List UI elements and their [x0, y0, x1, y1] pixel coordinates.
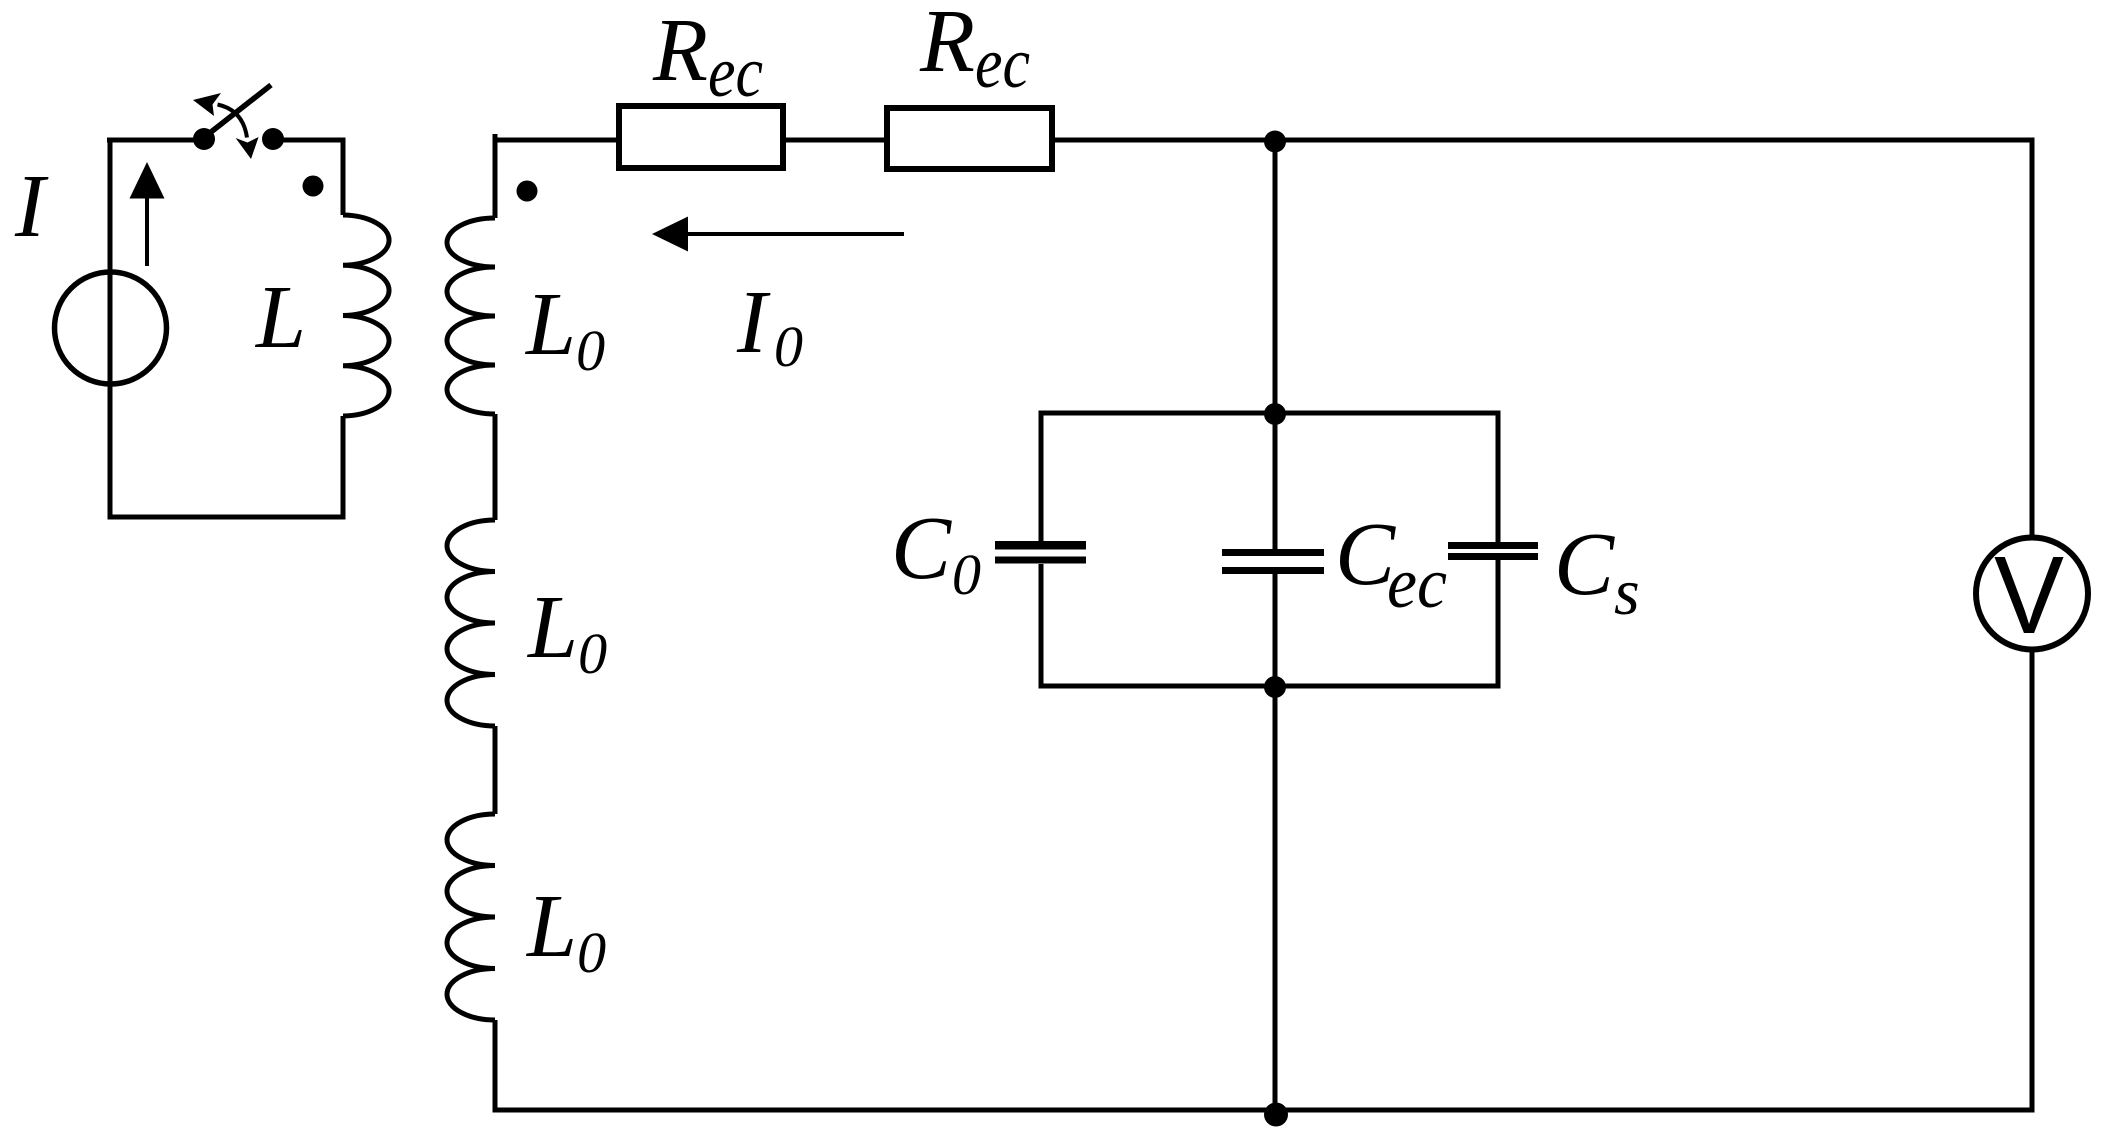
wire: right vertical upper (to voltmeter)	[2030, 138, 2035, 539]
wire: secondary between coil2 and coil3	[493, 726, 498, 814]
svg-text:L: L	[254, 268, 306, 367]
junction node (top wire / middle branch)	[1264, 131, 1286, 153]
wire: primary right vertical upper	[341, 138, 346, 216]
wire: middle vertical lower (cap bank to bottom rail)	[1273, 686, 1278, 1110]
wire: middle vertical upper (top node to cap bank)	[1273, 140, 1278, 413]
inductor L0 (third secondary coil)	[447, 814, 495, 1020]
wire: between resistors	[783, 138, 887, 143]
wire: primary right vertical lower	[341, 416, 346, 520]
wire: secondary top horizontal to R1	[493, 138, 620, 143]
wire: capacitor bank bottom rail	[1039, 684, 1501, 689]
wire: top right long segment	[1052, 138, 2035, 143]
switch motion arrow (curved, two heads)	[193, 93, 259, 159]
svg-text:L0: L0	[525, 877, 606, 985]
current direction arrow (I0, leftward)	[652, 217, 904, 252]
switch blade	[204, 85, 271, 138]
current direction arrow (I, upward)	[130, 162, 165, 266]
wire: primary top-right segment	[273, 138, 346, 143]
junction node (bottom wire / middle branch)	[1264, 1103, 1288, 1127]
current source I (circle)	[55, 272, 167, 384]
capacitor Cec (stems)	[1273, 413, 1278, 549]
resistor R_ec (left box)	[619, 106, 783, 168]
voltmeter V (circle)	[1976, 538, 2088, 650]
inductor L0 (first secondary coil)	[447, 218, 495, 414]
wire: right vertical lower (voltmeter to bottom)	[2030, 649, 2035, 1113]
svg-text:Cs: Cs	[1554, 515, 1640, 629]
wire: secondary top corner vertical	[493, 134, 498, 218]
wire: primary bottom	[108, 515, 346, 520]
capacitor Cs plates	[1448, 542, 1538, 549]
wire: primary left vertical	[108, 138, 113, 520]
wire: primary top-left segment	[107, 138, 204, 143]
svg-text:L0: L0	[526, 578, 607, 686]
transformer primary coil L	[343, 215, 389, 416]
svg-text:Cec: Cec	[1335, 505, 1447, 623]
svg-text:V: V	[1994, 534, 2064, 657]
winding polarity dot (secondary)	[517, 181, 538, 202]
junction node (cap bank top rail)	[1264, 403, 1286, 425]
svg-text:L0: L0	[524, 275, 605, 383]
switch contact dot (left)	[193, 128, 215, 150]
svg-text:C0: C0	[891, 499, 981, 607]
switch contact dot (right)	[262, 128, 284, 150]
svg-text:I: I	[14, 157, 49, 256]
svg-text:I0: I0	[736, 273, 803, 379]
wire: bottom rail	[493, 1108, 2035, 1113]
capacitor Cec plates	[1222, 549, 1324, 556]
inductor L0 (second secondary coil)	[447, 520, 495, 726]
wire: capacitor bank top rail	[1039, 411, 1501, 416]
capacitor C0 plates	[995, 541, 1086, 550]
junction node (cap bank bottom rail)	[1264, 676, 1286, 698]
wire: secondary between coil1 and coil2	[493, 414, 498, 520]
capacitor Cs (stems)	[1496, 411, 1501, 543]
capacitor C0 (stems)	[1039, 411, 1044, 542]
winding polarity dot (primary)	[303, 176, 324, 197]
svg-text:Rec: Rec	[919, 0, 1030, 103]
svg-text:Rec: Rec	[652, 1, 763, 112]
resistor R_ec (right box)	[887, 108, 1052, 169]
wire: secondary coil3 to bottom	[493, 1020, 498, 1113]
